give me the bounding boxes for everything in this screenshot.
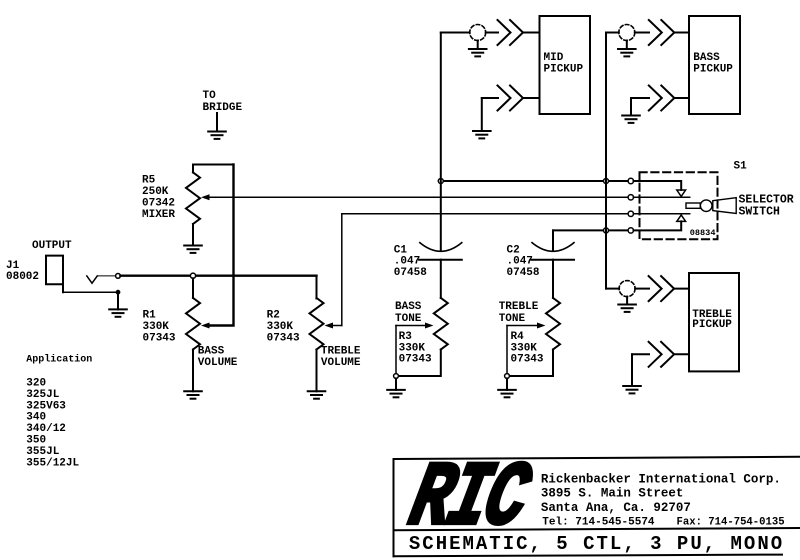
- svg-text:08834: 08834: [690, 228, 716, 238]
- wire bass return to chevron: [631, 97, 649, 99]
- svg-text:C1: C1: [394, 244, 408, 256]
- junction node net1 at bus: [604, 179, 609, 184]
- wire R3 bottom to junction: [399, 350, 441, 377]
- mid pickup box: [540, 16, 591, 114]
- svg-text:07343: 07343: [267, 332, 300, 344]
- jack tip node circle: [116, 274, 121, 279]
- svg-text:325JL: 325JL: [26, 389, 59, 401]
- R2 wiper arrow: [325, 323, 334, 329]
- svg-text:250K: 250K: [142, 186, 169, 198]
- wire mid return to chevron: [482, 97, 498, 99]
- svg-text:TONE: TONE: [395, 313, 422, 325]
- resistor R2 330K treble volume: [310, 298, 324, 350]
- svg-text:PICKUP: PICKUP: [693, 64, 733, 76]
- ground below R5: [184, 246, 202, 253]
- wire bass shield to chevron: [635, 32, 649, 34]
- wire output node to volume pots: [120, 275, 316, 277]
- selector lever cone: [713, 198, 736, 214]
- svg-text:330K: 330K: [511, 342, 538, 354]
- junction node net4 at bus: [604, 228, 609, 233]
- ground at treble pickup shield: [618, 297, 636, 312]
- wire net3 to R2 wiper: [331, 325, 342, 327]
- R1 wiper arrow: [201, 323, 210, 329]
- svg-text:MIXER: MIXER: [142, 209, 175, 221]
- svg-text:.047: .047: [394, 256, 420, 268]
- wire net4 C2 to selector terminal 4: [553, 229, 628, 231]
- wire chevron to bass pickup: [674, 32, 689, 34]
- svg-text:07458: 07458: [394, 267, 427, 279]
- svg-text:320: 320: [26, 378, 46, 390]
- bass pickup box: [689, 16, 740, 114]
- wire net1 bass/mid to selector terminal 1: [441, 180, 628, 182]
- svg-text:SCHEMATIC, 5 CTL, 3 PU, MONO: SCHEMATIC, 5 CTL, 3 PU, MONO: [409, 533, 784, 555]
- wire treble shield to chevron: [635, 288, 649, 290]
- selector terminal 1: [628, 178, 633, 183]
- wire R4 wiper drop: [506, 326, 508, 374]
- wire mid pickup hot left: [441, 32, 470, 34]
- capacitor C2 .047: [531, 243, 574, 260]
- svg-text:Santa Ana, Ca. 92707: Santa Ana, Ca. 92707: [541, 501, 691, 515]
- svg-text:VOLUME: VOLUME: [198, 357, 238, 369]
- bridge ground: [208, 113, 226, 139]
- wire net2 R5 wiper to selector terminal 2: [209, 196, 628, 198]
- ground at mid pickup shield: [469, 41, 487, 57]
- svg-text:TO: TO: [203, 90, 217, 102]
- svg-text:Tel: 714-545-5574: Tel: 714-545-5574: [542, 517, 655, 529]
- wire treble return to chevron: [632, 353, 649, 355]
- selector contact arrow down: [677, 190, 686, 196]
- svg-text:350: 350: [26, 435, 46, 447]
- ground at bass pickup return: [622, 98, 640, 123]
- svg-text:3895 S. Main Street: 3895 S. Main Street: [541, 487, 684, 501]
- ground below R4: [498, 378, 516, 397]
- svg-text:Fax: 714-754-0135: Fax: 714-754-0135: [677, 517, 785, 529]
- selector terminal 3: [628, 211, 633, 216]
- wire R5 bottom to ground: [192, 224, 194, 246]
- wire R5 top to bus: [193, 164, 234, 166]
- svg-text:340: 340: [26, 412, 46, 424]
- selector lever ball: [700, 200, 712, 212]
- selector terminal 4: [628, 228, 633, 233]
- svg-text:Application: Application: [26, 353, 92, 365]
- vertical bus from bass pickup to treble pickup: [605, 33, 607, 289]
- wire net3 vertical drop: [341, 214, 343, 326]
- ground at output jack: [109, 295, 127, 317]
- svg-text:TREBLE: TREBLE: [321, 345, 361, 357]
- wire mid shield to chevron: [486, 32, 498, 34]
- wire chevron to bass pickup return pin: [674, 97, 689, 99]
- ground at bass pickup shield: [618, 41, 636, 57]
- treble pickup box: [689, 273, 739, 371]
- svg-text:TONE: TONE: [499, 313, 526, 325]
- svg-text:BASS: BASS: [693, 52, 720, 64]
- wire chevron to mid pickup return pin: [523, 97, 540, 99]
- svg-text:330K: 330K: [399, 342, 426, 354]
- svg-text:MID: MID: [544, 52, 564, 64]
- resistor R1 330K bass volume: [186, 298, 200, 350]
- svg-text:08002: 08002: [6, 271, 39, 283]
- selector internal wire from terminal 2: [634, 196, 690, 198]
- connector chevrons bass return: [649, 86, 675, 111]
- svg-text:BRIDGE: BRIDGE: [203, 102, 243, 114]
- svg-text:R1: R1: [143, 310, 157, 322]
- svg-text:PICKUP: PICKUP: [544, 64, 584, 76]
- title block top border: [394, 457, 800, 459]
- title block bottom border: [394, 555, 783, 557]
- svg-text:340/12: 340/12: [26, 423, 66, 435]
- output jack J1 body: [46, 256, 63, 293]
- junction node net1 at C1 branch: [438, 179, 443, 184]
- wire C2 to R4: [552, 260, 554, 298]
- ground below R1: [184, 391, 202, 398]
- bass pickup shield connector: [619, 25, 635, 41]
- svg-text:PICKUP: PICKUP: [692, 319, 732, 331]
- connector chevrons treble hot: [649, 276, 675, 301]
- wire down to R2 top: [316, 276, 318, 299]
- selector terminal 2: [628, 195, 633, 200]
- wire net3 selector terminal 3 to treble volume: [342, 213, 628, 215]
- svg-text:R3: R3: [399, 331, 413, 343]
- wire R3 wiper drop: [395, 326, 397, 374]
- svg-text:VOLUME: VOLUME: [321, 357, 361, 369]
- resistor R3 330K bass tone: [434, 298, 448, 350]
- selector contact arrow up: [677, 215, 686, 221]
- wire R1 bottom to ground: [192, 350, 194, 392]
- svg-text:330K: 330K: [267, 321, 294, 333]
- wire R2 bottom to ground: [316, 350, 318, 392]
- title block divider: [394, 528, 800, 530]
- wire chevron to mid pickup: [523, 32, 540, 34]
- wire R3 wiper horizontal: [396, 325, 426, 327]
- svg-text:BASS: BASS: [198, 345, 225, 357]
- wire R4 bottom to junction: [510, 350, 554, 377]
- svg-text:07343: 07343: [143, 332, 176, 344]
- selector internal wire from terminal 3: [634, 213, 690, 215]
- wire jack tip to node: [97, 275, 115, 277]
- wire treble pickup feed: [606, 288, 619, 290]
- svg-text:07343: 07343: [399, 354, 432, 366]
- connector chevrons treble return: [649, 342, 675, 367]
- svg-text:07458: 07458: [507, 267, 540, 279]
- wire R5/bus to R1 wiper: [209, 165, 234, 326]
- svg-text:355/12JL: 355/12JL: [26, 457, 79, 469]
- wire R4 wiper horizontal: [507, 325, 538, 327]
- connector chevrons bass hot: [649, 20, 675, 45]
- capacitor C1 .047: [419, 243, 462, 260]
- mid pickup shield connector: [470, 25, 486, 41]
- wire junction to R1 top: [192, 278, 194, 298]
- svg-text:R2: R2: [267, 310, 280, 322]
- svg-text:330K: 330K: [143, 321, 170, 333]
- jack tip contact: [87, 276, 98, 283]
- wire jack sleeve to ground node: [63, 291, 116, 293]
- vertical wire mid pickup to C1: [440, 33, 442, 252]
- svg-text:BASS: BASS: [395, 301, 422, 313]
- resistor R5 250K mixer: [186, 172, 200, 224]
- wire R5 top stub: [192, 165, 194, 173]
- selector switch dashed outline: [640, 172, 718, 239]
- svg-text:355JL: 355JL: [26, 446, 59, 458]
- junction node output at R1: [190, 273, 195, 278]
- jack sleeve junction dot: [116, 290, 121, 295]
- selector internal wire from terminal 4: [634, 221, 682, 230]
- R4 wiper arrow: [537, 323, 546, 329]
- ground at mid pickup return: [473, 98, 491, 138]
- svg-text:07342: 07342: [142, 197, 175, 209]
- connector chevrons mid hot: [498, 20, 524, 45]
- ground at treble pickup return: [623, 354, 641, 393]
- ground below R3: [387, 378, 405, 397]
- svg-text:07343: 07343: [511, 354, 544, 366]
- wire net4 down to C2: [552, 230, 554, 251]
- svg-text:R4: R4: [511, 331, 525, 343]
- title block left border: [393, 459, 395, 556]
- R5 wiper arrow: [201, 194, 210, 200]
- resistor R4 330K treble tone: [546, 298, 560, 350]
- connector chevrons mid return: [498, 86, 524, 111]
- svg-text:R5: R5: [142, 175, 156, 187]
- junction node R4 ground: [505, 374, 510, 379]
- svg-text:325V63: 325V63: [26, 400, 66, 412]
- junction node R3 ground: [394, 374, 399, 379]
- svg-text:TREBLE: TREBLE: [499, 301, 539, 313]
- selector lever shaft: [686, 203, 700, 208]
- wire chevron to treble pickup: [674, 288, 689, 290]
- treble pickup shield connector: [619, 281, 635, 297]
- svg-text:Rickenbacker International Cor: Rickenbacker International Corp.: [541, 472, 781, 486]
- wire C1 to R3: [440, 260, 442, 298]
- svg-text:OUTPUT: OUTPUT: [32, 240, 72, 252]
- R3 wiper arrow: [425, 323, 434, 329]
- selector internal wire from terminal 1: [634, 181, 682, 190]
- wire chevron to treble pickup return pin: [674, 353, 689, 355]
- svg-text:SWITCH: SWITCH: [739, 205, 781, 218]
- svg-text:C2: C2: [507, 244, 520, 256]
- ground below R2: [308, 391, 326, 398]
- wire bass pickup hot left: [606, 32, 619, 34]
- svg-text:.047: .047: [507, 256, 533, 268]
- svg-text:S1: S1: [734, 161, 748, 173]
